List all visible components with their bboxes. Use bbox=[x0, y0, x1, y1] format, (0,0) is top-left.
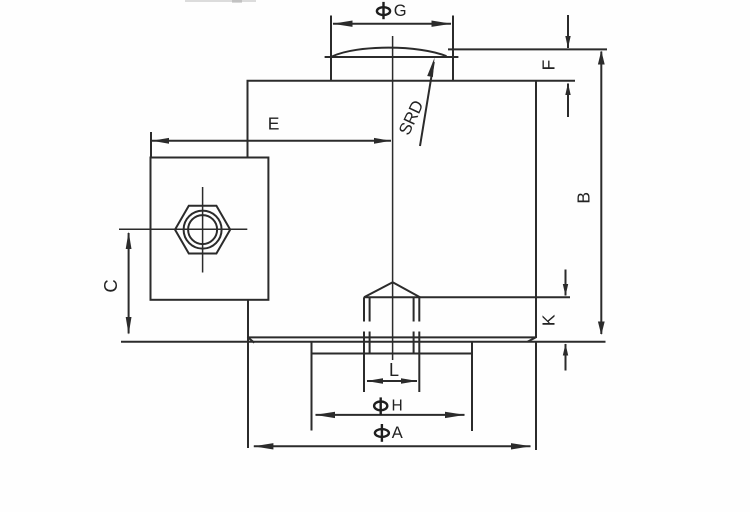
svg-text:L: L bbox=[389, 360, 399, 380]
pedestal right edge + H extension bbox=[471, 342, 473, 431]
A left arrow bbox=[253, 443, 273, 449]
svg-text:F: F bbox=[539, 60, 559, 71]
gland crosshair vertical bbox=[202, 187, 204, 273]
dome arc bbox=[332, 48, 447, 57]
K top arrow (points down) bbox=[563, 284, 568, 296]
thread inner right line bbox=[413, 297, 415, 353]
arrowheads bbox=[126, 21, 605, 450]
B top arrow (points up) bbox=[598, 51, 605, 65]
G right arrow bbox=[432, 21, 452, 27]
SRD arrowhead bbox=[427, 58, 434, 77]
C bottom arrow bbox=[126, 317, 132, 335]
dim A right extension bbox=[535, 342, 537, 450]
thread inner left line bbox=[369, 297, 371, 353]
C top arrow bbox=[126, 232, 132, 250]
gland inner circle bbox=[188, 215, 217, 244]
H left arrow bbox=[315, 412, 335, 418]
label phi G bbox=[377, 2, 390, 19]
dim K bottom arrow line bbox=[565, 344, 567, 371]
label phi H bbox=[374, 397, 387, 415]
svg-text:G: G bbox=[394, 2, 407, 20]
dim F bottom arrow line bbox=[567, 84, 569, 118]
K bottom arrow (points up) bbox=[563, 344, 568, 356]
E left arrow bbox=[152, 138, 169, 144]
L left arrow bbox=[367, 378, 384, 384]
dim G line bbox=[333, 23, 451, 25]
dim A line bbox=[254, 445, 531, 447]
pedestal left edge + H extension bbox=[311, 342, 313, 431]
body lower-left edge + dim A left extension bbox=[247, 300, 249, 448]
H right arrow bbox=[445, 412, 465, 418]
dome apex extension line (F/B top) bbox=[448, 48, 607, 50]
svg-text:B: B bbox=[574, 192, 594, 204]
gland crosshair horizontal bbox=[119, 228, 247, 230]
dim E extension line bbox=[150, 132, 152, 158]
chevron base + K extension line bbox=[364, 296, 570, 298]
flange bottom long line bbox=[121, 341, 606, 343]
flange left chamfer bbox=[248, 337, 255, 343]
F bottom arrow (points up) bbox=[565, 83, 570, 95]
pedestal bottom line bbox=[312, 353, 473, 355]
dim H line bbox=[316, 414, 465, 416]
vertical centerline bbox=[392, 36, 394, 360]
L right arrow bbox=[401, 378, 418, 384]
svg-text:E: E bbox=[268, 114, 280, 134]
dim B line bbox=[600, 52, 602, 335]
label phi A bbox=[375, 424, 389, 442]
F top arrow (points down) bbox=[565, 36, 570, 48]
E right arrow bbox=[374, 138, 391, 144]
cropped text remnant top edge bbox=[185, 0, 256, 3]
svg-text:C: C bbox=[100, 279, 121, 292]
svg-text:H: H bbox=[391, 398, 402, 415]
A right arrow bbox=[511, 443, 531, 449]
dim L line bbox=[367, 380, 417, 382]
load cell body outline bbox=[248, 81, 576, 338]
dome chord line bbox=[325, 56, 459, 58]
hex cable gland bbox=[175, 206, 230, 254]
dim F top arrow line bbox=[567, 15, 569, 48]
top cap (load button) sides bbox=[331, 16, 453, 81]
gland outer circle bbox=[184, 211, 222, 249]
cable housing box bbox=[151, 158, 269, 300]
svg-text:A: A bbox=[392, 424, 403, 442]
dim C line bbox=[128, 233, 130, 334]
B bottom arrow (points down) bbox=[598, 322, 605, 336]
G left arrow bbox=[333, 21, 353, 27]
svg-text:K: K bbox=[539, 314, 559, 326]
threaded hole chevron bbox=[364, 282, 420, 297]
thread outer right line bbox=[418, 297, 420, 392]
SRD leader line bbox=[420, 62, 434, 146]
thread outer left line bbox=[363, 297, 365, 392]
dim K top arrow line bbox=[565, 270, 567, 296]
dim E line bbox=[152, 140, 391, 142]
base flange top line bbox=[249, 336, 536, 338]
flange right chamfer bbox=[528, 337, 537, 342]
